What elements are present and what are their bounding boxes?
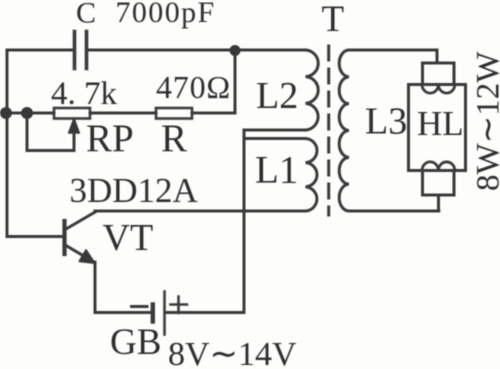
svg-text:RP: RP: [86, 117, 134, 160]
lamp HL top filament box: [423, 63, 455, 85]
potentiometer RP wiper loop: [27, 113, 74, 151]
battery plus sign: [171, 297, 188, 314]
lamp HL tube body: [409, 85, 466, 171]
inductor L3: [339, 50, 439, 211]
wire battery right to riser: [166, 311, 244, 314]
wire battery left: [95, 311, 151, 314]
node junction dot wiper: [21, 107, 33, 119]
potentiometer RP body: [54, 108, 90, 119]
wire RP to R: [90, 112, 156, 115]
wire riser L2 bottom to battery: [244, 130, 306, 313]
svg-text:7000pF: 7000pF: [116, 0, 216, 29]
svg-text:L1: L1: [255, 149, 298, 192]
potentiometer RP wiper arrow: [69, 119, 80, 134]
inductor L2: [306, 50, 319, 130]
wire emitter down: [94, 262, 97, 313]
svg-text:GB: GB: [110, 322, 161, 363]
transistor VT emitter arrow: [80, 250, 95, 263]
resistor R body: [156, 108, 192, 119]
svg-text:L3: L3: [365, 101, 407, 143]
capacitor C: [75, 32, 87, 69]
battery GB negative plate: [151, 305, 155, 322]
wire top middle: [89, 49, 306, 52]
wire top left: [7, 49, 73, 52]
svg-text:8V∼14V: 8V∼14V: [168, 336, 297, 369]
lamp HL top filament coils: [422, 85, 455, 94]
svg-text:3DD12A: 3DD12A: [70, 171, 199, 210]
wire R to riser: [192, 112, 235, 115]
wire second rail left: [7, 112, 54, 115]
battery minus sign: [132, 305, 148, 308]
node junction dot top: [230, 45, 241, 56]
svg-text:VT: VT: [103, 217, 154, 259]
lamp HL bottom filament coils: [422, 162, 455, 171]
transistor VT emitter: [66, 246, 93, 262]
svg-text:4. 7k: 4. 7k: [51, 76, 118, 112]
svg-text:R: R: [161, 117, 187, 160]
node junction dot left rail: [0, 107, 12, 119]
transistor VT base bar: [62, 221, 66, 254]
battery GB positive plate: [163, 292, 166, 335]
svg-text:C: C: [76, 0, 96, 30]
svg-text:HL: HL: [417, 104, 464, 143]
wire base: [7, 235, 63, 238]
wire lamp bottom drop: [437, 195, 440, 211]
svg-text:8W∼12W: 8W∼12W: [471, 51, 500, 191]
svg-text:L2: L2: [256, 75, 298, 117]
wire from node to R network: [234, 50, 237, 113]
lamp HL bottom filament box: [423, 171, 455, 196]
wire lamp top drop: [436, 50, 439, 63]
svg-text:T: T: [322, 0, 345, 40]
transformer core: [327, 46, 330, 215]
wire left rail: [6, 50, 9, 237]
wire collector rail: [95, 210, 306, 213]
transistor VT collector: [66, 212, 96, 230]
svg-text:470Ω: 470Ω: [156, 69, 231, 105]
inductor L1: [244, 139, 317, 212]
